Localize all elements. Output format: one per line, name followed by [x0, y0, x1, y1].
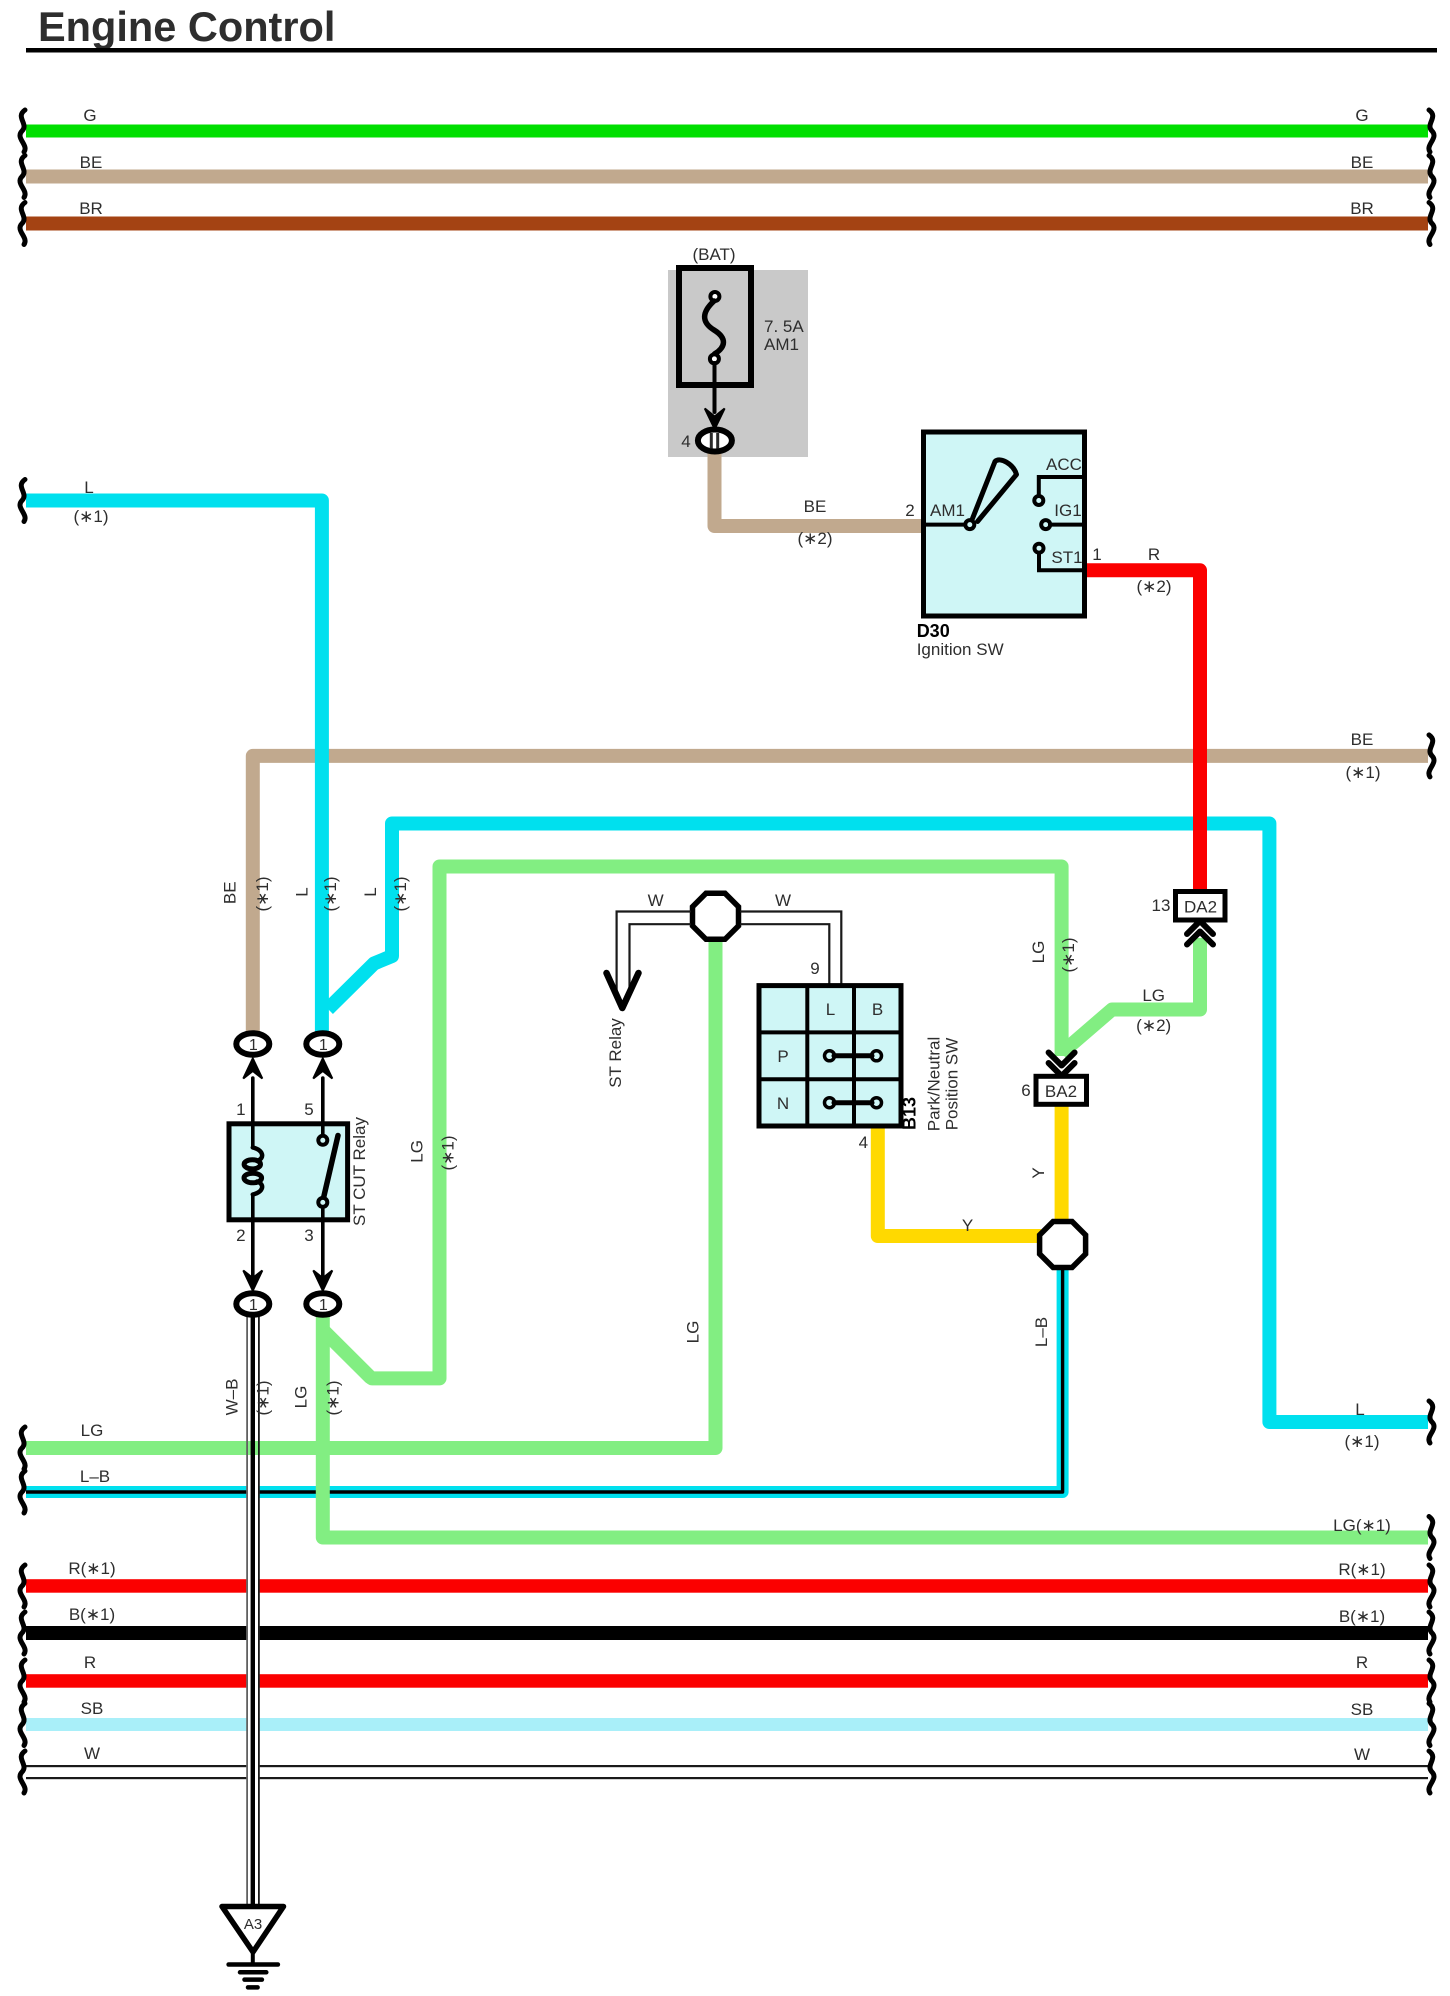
svg-text:B(∗1): B(∗1)	[69, 1605, 115, 1624]
break R right	[1429, 1660, 1434, 1702]
arrow up into pin5 oval	[313, 1059, 332, 1079]
svg-text:L: L	[826, 1000, 835, 1019]
ST CUT relay box	[229, 1124, 348, 1220]
svg-text:R(∗1): R(∗1)	[68, 1559, 115, 1578]
svg-text:(∗2): (∗2)	[1136, 1016, 1171, 1035]
break W left	[20, 1751, 25, 1793]
wire LG(*1) from relay pin 3 oval down then right to break	[323, 1304, 1428, 1538]
connector oval 1 (relay pin 2, W-B side)	[236, 1293, 269, 1315]
svg-text:1: 1	[236, 1100, 245, 1119]
ground stem	[251, 1950, 255, 1964]
svg-text:9: 9	[810, 959, 819, 978]
break R left	[20, 1660, 25, 1702]
break BE left	[20, 156, 25, 198]
ignition IG1 contact circle	[1041, 520, 1050, 529]
svg-text:L: L	[293, 887, 312, 896]
fuse element top terminal circle	[710, 292, 719, 301]
wire W-B black center stripe	[251, 1316, 255, 1908]
wire L-B horizontal + vertical to junction J2 (cyan with black stripe)	[26, 1269, 1063, 1492]
wire BE top (tan)	[26, 170, 1428, 184]
svg-text:W: W	[84, 1744, 100, 1763]
svg-text:DA2: DA2	[1184, 898, 1217, 917]
wire SB bottom (sky blue)	[26, 1718, 1428, 1731]
B13 row N contact	[825, 1098, 835, 1108]
svg-text:BE: BE	[804, 497, 827, 516]
svg-text:5: 5	[304, 1100, 313, 1119]
connector oval 1 (relay pin 3, LG side)	[306, 1293, 339, 1315]
svg-text:(∗1): (∗1)	[324, 1380, 343, 1415]
svg-text:(∗2): (∗2)	[797, 529, 832, 548]
svg-text:P: P	[777, 1047, 788, 1066]
wire LG(*1) branch diagonal up to top loop and down to BA2 chevron	[323, 867, 1062, 1379]
svg-text:1: 1	[1092, 545, 1101, 564]
svg-text:(∗1): (∗1)	[73, 507, 108, 526]
svg-text:L–B: L–B	[80, 1467, 110, 1486]
svg-text:2: 2	[905, 501, 914, 520]
connector BA2 box (pin 6)	[1036, 1076, 1087, 1104]
arrow down into pin3 lower oval	[313, 1271, 332, 1291]
wire W-B white band (ground wire)	[246, 1316, 259, 1908]
break R(*1) left	[20, 1565, 25, 1607]
svg-text:W: W	[775, 891, 791, 910]
connector DA2 box (pin 13)	[1176, 892, 1226, 921]
fuse element bottom terminal circle	[710, 354, 719, 363]
wire R(*1) bottom (red)	[26, 1579, 1428, 1593]
wire W from J1 to ST Relay arrow (white wire outlines)	[617, 912, 690, 993]
wire W-B left edge line	[246, 1316, 248, 1908]
wire L-B black stripe	[26, 1269, 1063, 1492]
ground A3 triangle	[222, 1907, 284, 1953]
arrow into connector II (down)	[705, 409, 725, 430]
svg-text:LG: LG	[81, 1421, 104, 1440]
relay switch top contact circle	[318, 1136, 327, 1145]
svg-text:L–B: L–B	[1032, 1317, 1051, 1347]
break LG(*1) right	[1429, 1517, 1434, 1559]
ignition AM1 contact line	[924, 523, 967, 527]
wire BE(*2) fuse to ignition switch (tan)	[715, 450, 924, 526]
connector oval II (pin 4)	[698, 430, 732, 452]
relay pin 2 lead	[251, 1196, 255, 1279]
svg-text:Ignition SW: Ignition SW	[917, 640, 1004, 659]
wire R bottom (red)	[26, 1674, 1428, 1688]
svg-text:B13: B13	[900, 1097, 920, 1130]
svg-text:Position SW: Position SW	[943, 1038, 962, 1131]
B13 row P contact	[825, 1051, 835, 1061]
svg-text:ST1: ST1	[1051, 548, 1082, 567]
wire L right loop: from cyan horizontal down to merge with left L vertical	[328, 824, 1428, 1423]
svg-text:BE: BE	[1351, 730, 1374, 749]
svg-text:BA2: BA2	[1045, 1082, 1077, 1101]
break R(*1) right	[1429, 1565, 1434, 1607]
fuse holder gray background box	[668, 270, 808, 457]
relay pin 1 lead	[251, 1078, 255, 1147]
wire Y from BA2 down to junction J2	[1055, 1100, 1069, 1222]
break LG left	[20, 1427, 25, 1469]
wire B(*1) bottom (black)	[26, 1626, 1428, 1640]
B13 park/neutral position switch box grid	[759, 986, 901, 1126]
svg-text:Park/Neutral: Park/Neutral	[925, 1037, 944, 1131]
wire BR top (brown)	[26, 217, 1428, 231]
wire L(*1) from left break to relay pin 5 oval (cyan)	[26, 501, 322, 1035]
wire Y from B13 pin 4 down and right to junction J2	[878, 1126, 1041, 1236]
svg-text:1: 1	[249, 1297, 258, 1314]
svg-text:2: 2	[236, 1226, 245, 1245]
svg-text:ST CUT Relay: ST CUT Relay	[350, 1117, 369, 1226]
ignition AM1 contact circle	[965, 520, 974, 529]
svg-text:R: R	[84, 1653, 96, 1672]
svg-text:B: B	[872, 1000, 883, 1019]
svg-text:LG(∗1): LG(∗1)	[1333, 1516, 1391, 1535]
wire LG(*2) from DA2 chevron down-left to BA2 chevron	[1062, 938, 1200, 1053]
svg-text:Y: Y	[1029, 1167, 1048, 1178]
svg-text:6: 6	[1021, 1081, 1030, 1100]
svg-text:D30: D30	[917, 621, 950, 641]
svg-text:Y: Y	[962, 1216, 973, 1235]
wire W-B right edge line	[258, 1316, 260, 1908]
wire R from ignition ST1 to DA2 (red)	[1084, 570, 1200, 892]
svg-text:R: R	[1356, 1653, 1368, 1672]
svg-text:1: 1	[319, 1297, 328, 1314]
svg-text:(∗1): (∗1)	[253, 876, 272, 911]
svg-text:(∗1): (∗1)	[1059, 937, 1078, 972]
svg-text:R(∗1): R(∗1)	[1338, 1560, 1385, 1579]
break L left	[20, 480, 25, 522]
BA2 double chevron down	[1049, 1053, 1075, 1066]
svg-text:B(∗1): B(∗1)	[1339, 1607, 1385, 1626]
svg-text:LG: LG	[684, 1321, 703, 1344]
connector oval 1 (relay pin 5, cyan side)	[306, 1033, 339, 1055]
break B(*1) right	[1429, 1612, 1434, 1654]
svg-text:(∗2): (∗2)	[1136, 577, 1171, 596]
svg-text:SB: SB	[1351, 1700, 1374, 1719]
fuse element S-curve	[705, 301, 724, 354]
break BR right	[1429, 203, 1434, 245]
svg-text:IG1: IG1	[1054, 501, 1081, 520]
fuse AM1 body rectangle	[679, 268, 751, 385]
svg-text:L: L	[1355, 1400, 1364, 1419]
ignition ST1 contact wire	[1039, 553, 1084, 571]
svg-text:13: 13	[1152, 896, 1171, 915]
break SB left	[20, 1704, 25, 1746]
svg-text:ACC: ACC	[1046, 455, 1082, 474]
ignition ACC contact circle	[1034, 496, 1043, 505]
ignition switch D30 box	[924, 432, 1085, 616]
break G right	[1429, 110, 1434, 152]
ignition lever wedge	[973, 460, 1017, 522]
svg-text:1: 1	[319, 1037, 328, 1054]
svg-text:L: L	[84, 478, 93, 497]
arrow down into pin2 lower oval	[243, 1271, 262, 1291]
svg-text:LG: LG	[1029, 941, 1048, 964]
svg-text:BR: BR	[1350, 199, 1374, 218]
break L(*1) right	[1429, 1401, 1434, 1443]
svg-text:L: L	[361, 887, 380, 896]
wire W from J1 to B13 pin 9 (white wire outlines)	[741, 912, 841, 987]
wire W bottom (white wire, two outline lines)	[26, 1765, 1428, 1767]
svg-text:BR: BR	[79, 199, 103, 218]
DA2 double chevron up	[1187, 921, 1213, 934]
svg-text:ST Relay: ST Relay	[606, 1018, 625, 1088]
ground bars	[229, 1962, 278, 1967]
wire G top (green)	[26, 125, 1428, 138]
svg-text:(BAT): (BAT)	[692, 245, 735, 264]
svg-text:W–B: W–B	[223, 1379, 242, 1416]
break W right	[1429, 1751, 1434, 1793]
svg-text:G: G	[1355, 106, 1368, 125]
break BE(*1) right	[1429, 735, 1434, 777]
svg-text:AM1: AM1	[930, 501, 965, 520]
svg-text:G: G	[83, 106, 96, 125]
ignition ST1 contact circle	[1035, 544, 1044, 553]
svg-text:1: 1	[249, 1037, 258, 1054]
svg-text:BE: BE	[80, 153, 103, 172]
relay switch bottom contact circle	[318, 1198, 327, 1207]
svg-text:SB: SB	[81, 1699, 104, 1718]
svg-text:A3: A3	[244, 1916, 262, 1933]
fuse lead line down	[713, 363, 717, 412]
junction J1 octagon	[693, 893, 739, 939]
relay pin 3 lead	[321, 1207, 325, 1279]
break BR left	[20, 203, 25, 245]
title underline	[26, 48, 1437, 53]
arrow up into pin1 oval	[243, 1059, 262, 1079]
svg-text:3: 3	[304, 1226, 313, 1245]
svg-text:(∗1): (∗1)	[254, 1380, 273, 1415]
svg-text:BE: BE	[1351, 153, 1374, 172]
svg-text:7. 5A: 7. 5A	[764, 317, 804, 336]
svg-text:Engine Control: Engine Control	[38, 3, 335, 50]
svg-text:N: N	[777, 1094, 789, 1113]
svg-text:(∗1): (∗1)	[391, 876, 410, 911]
connector II bars	[710, 433, 713, 449]
svg-text:(∗1): (∗1)	[1344, 1432, 1379, 1451]
break L-B left	[20, 1471, 25, 1513]
break G left	[20, 110, 25, 152]
svg-text:AM1: AM1	[764, 335, 799, 354]
svg-text:LG: LG	[1142, 986, 1165, 1005]
ST Relay open arrow	[607, 973, 639, 1008]
ignition ACC contact wire	[1039, 477, 1084, 494]
svg-text:BE: BE	[221, 881, 240, 904]
svg-text:LG: LG	[408, 1140, 427, 1163]
svg-text:(∗1): (∗1)	[439, 1135, 458, 1170]
connector oval 1 (relay pin 1, tan side)	[236, 1033, 269, 1055]
svg-text:(∗1): (∗1)	[321, 876, 340, 911]
svg-text:W: W	[1354, 1745, 1370, 1764]
wire BE(*1) right break to ST CUT relay pin 1 (tan)	[253, 756, 1428, 1034]
relay coil	[253, 1148, 262, 1162]
svg-text:R: R	[1148, 545, 1160, 564]
svg-text:W: W	[648, 891, 664, 910]
relay switch lever	[324, 1136, 339, 1199]
svg-text:4: 4	[681, 432, 690, 451]
break BE right	[1429, 156, 1434, 198]
break SB right	[1429, 1704, 1434, 1746]
svg-text:LG: LG	[292, 1386, 311, 1409]
svg-text:4: 4	[859, 1133, 868, 1152]
relay pin 5 lead	[321, 1078, 325, 1137]
ignition IG1 contact wire	[1050, 523, 1084, 527]
wire LG from left break to junction J1 octagon	[26, 941, 716, 1448]
svg-text:(∗1): (∗1)	[1345, 763, 1380, 782]
break B(*1) left	[20, 1612, 25, 1654]
junction J2 octagon	[1040, 1222, 1086, 1268]
